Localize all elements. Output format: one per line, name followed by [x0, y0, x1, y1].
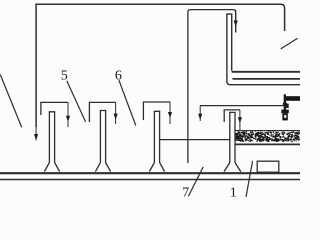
svg-text:1: 1	[230, 186, 237, 200]
svg-text:7: 7	[182, 186, 189, 200]
svg-text:6: 6	[115, 68, 122, 83]
svg-text:5: 5	[61, 68, 68, 83]
